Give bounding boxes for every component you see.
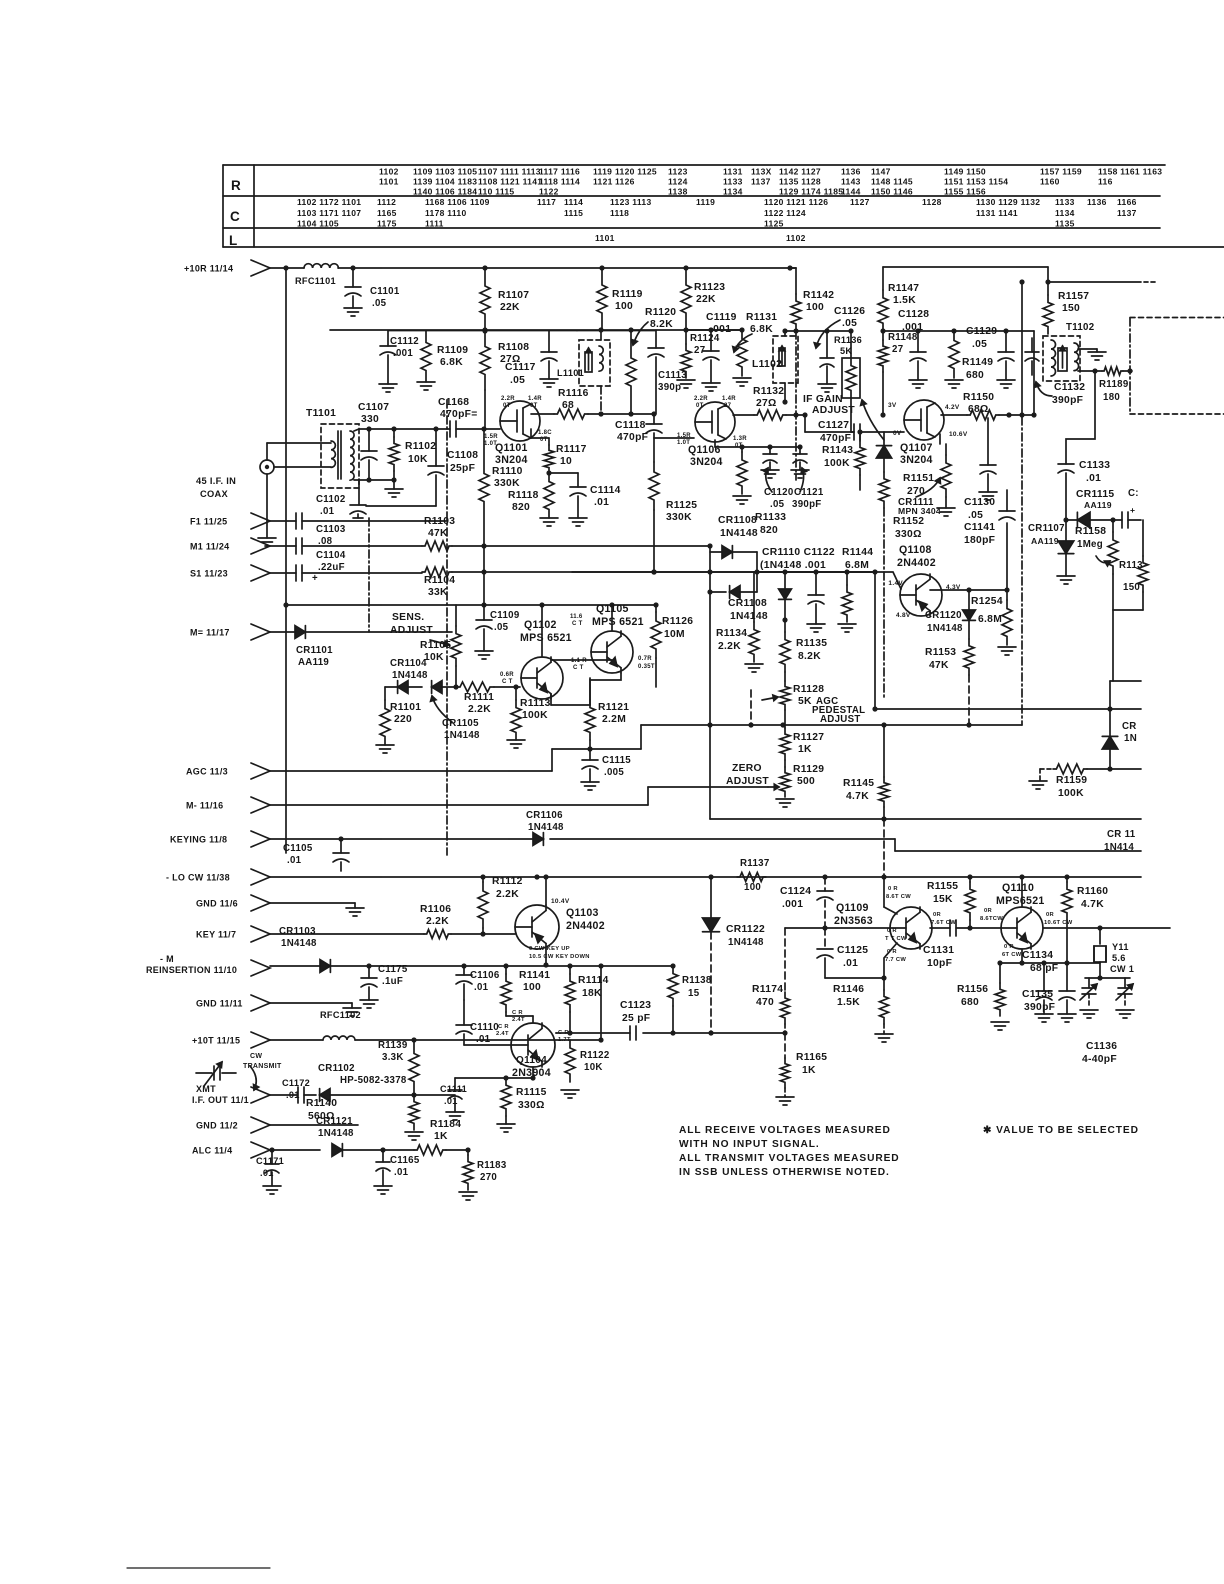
wire Q1107 drain line: [941, 414, 967, 416]
svg-text:1166: 1166: [1117, 197, 1137, 207]
svg-text:100: 100: [523, 982, 541, 993]
diode CR1105 1N4148: [432, 681, 442, 694]
capacitor C1118 470pF: [653, 414, 655, 424]
svg-text:R1109: R1109: [437, 345, 468, 356]
svg-text:100K: 100K: [1058, 788, 1084, 799]
svg-text:KEYING 11/8: KEYING 11/8: [170, 835, 227, 845]
svg-text:27: 27: [694, 345, 705, 356]
svg-text:ALL TRANSMIT VOLTAGES MEASURED: ALL TRANSMIT VOLTAGES MEASURED: [679, 1153, 900, 1164]
svg-text:330Ω: 330Ω: [895, 529, 922, 540]
svg-text:C1134: C1134: [1022, 950, 1053, 961]
resistor R1142 100: [790, 267, 796, 269]
resistor R1114 18K: [565, 974, 575, 1012]
crystal Y1101: [1099, 928, 1101, 944]
svg-text:6T CW: 6T CW: [1002, 952, 1022, 958]
svg-text:470pF=: 470pF=: [440, 409, 478, 420]
svg-text:1N4148: 1N4148: [281, 938, 317, 949]
wire Q1104 emitter: [532, 1067, 534, 1078]
svg-text:R1117: R1117: [556, 444, 587, 455]
svg-text:C T: C T: [502, 679, 513, 685]
svg-text:3N204: 3N204: [495, 454, 528, 466]
svg-text:- LO CW 11/38: - LO CW 11/38: [166, 873, 230, 883]
svg-text:1.3R: 1.3R: [733, 436, 747, 442]
svg-text:T1102: T1102: [1066, 322, 1094, 333]
svg-text:MPN 3404: MPN 3404: [898, 506, 941, 516]
svg-text:1N4148: 1N4148: [927, 623, 963, 634]
svg-text:R1110: R1110: [492, 466, 523, 477]
svg-text:REINSERTION 11/10: REINSERTION 11/10: [146, 965, 237, 975]
svg-text:C1124: C1124: [780, 886, 811, 897]
svg-text:0T: 0T: [503, 403, 511, 409]
svg-text:47K: 47K: [929, 660, 949, 671]
svg-text:R1112: R1112: [492, 876, 523, 887]
svg-text:C1110: C1110: [470, 1022, 499, 1033]
wire L1101 node: [577, 330, 656, 332]
resistor R1254 6.8M: [1006, 590, 1008, 600]
transistor Q1102 MPS6521: [521, 657, 563, 699]
svg-text:1112: 1112: [377, 197, 396, 207]
svg-text:C1172: C1172: [282, 1078, 310, 1088]
svg-text:R1119: R1119: [612, 289, 643, 300]
wire Q1104 collector line: [555, 1032, 557, 1034]
svg-text:1101: 1101: [379, 177, 399, 187]
svg-text:5K: 5K: [840, 346, 852, 356]
wire Q1108 collector line: [930, 589, 1007, 591]
svg-text:1117: 1117: [537, 197, 556, 207]
svg-text:18K: 18K: [582, 988, 602, 999]
wire AGC pedestal bus y=725: [590, 748, 641, 750]
resistor R1109 6.8K: [421, 331, 431, 382]
svg-text:10.6V: 10.6V: [949, 431, 968, 438]
svg-text:100K: 100K: [824, 458, 850, 469]
svg-text:1N4148: 1N4148: [318, 1128, 354, 1139]
capacitor C1115 .005: [589, 749, 591, 760]
capacitor C1104 .22uF series: [270, 545, 296, 547]
svg-text:1138: 1138: [668, 187, 688, 197]
svg-text:HP-5082-3378: HP-5082-3378: [340, 1075, 407, 1086]
svg-text:GND 11/11: GND 11/11: [196, 999, 243, 1009]
svg-text:R1147: R1147: [888, 283, 919, 294]
diode CR1109 1N4148: [710, 591, 726, 593]
resistor R1104 33K on S1 line: [422, 567, 452, 577]
svg-text:R1149: R1149: [962, 357, 993, 368]
svg-text:Q1104: Q1104: [516, 1055, 547, 1066]
svg-text:1N414: 1N414: [1104, 842, 1134, 853]
resistor R1111 2.2K: [456, 682, 494, 692]
capacitor C1107 330: [368, 429, 370, 451]
svg-text:M- 11/16: M- 11/16: [186, 801, 223, 811]
svg-text:R1101: R1101: [390, 702, 421, 713]
svg-text:C1104: C1104: [316, 550, 346, 561]
svg-text:0.35T: 0.35T: [638, 664, 655, 670]
svg-text:TRANSMIT: TRANSMIT: [243, 1063, 282, 1070]
svg-text:180: 180: [1103, 392, 1120, 403]
svg-text:22K: 22K: [500, 302, 520, 313]
svg-text:IN SSB UNLESS OTHERWISE NOTED.: IN SSB UNLESS OTHERWISE NOTED.: [679, 1167, 890, 1178]
capacitor C1103 .08 series: [270, 520, 296, 522]
svg-text:150: 150: [1062, 303, 1080, 314]
svg-text:CW: CW: [250, 1053, 262, 1060]
svg-text:1133: 1133: [723, 177, 743, 187]
svg-text:CR1104: CR1104: [390, 658, 427, 669]
svg-text:1115: 1115: [564, 208, 583, 218]
partition shield line input: [368, 518, 370, 632]
svg-text:Q1109: Q1109: [836, 902, 869, 914]
wire sens bus: [286, 604, 656, 606]
svg-text:1142 1127: 1142 1127: [779, 167, 821, 177]
svg-text:.01: .01: [287, 855, 302, 866]
svg-text:RFC1101: RFC1101: [295, 276, 336, 286]
svg-text:270: 270: [907, 486, 925, 497]
svg-text:C1119: C1119: [706, 312, 737, 323]
svg-text:10.5 CW KEY DOWN: 10.5 CW KEY DOWN: [529, 954, 590, 960]
svg-text:390pF: 390pF: [792, 499, 822, 510]
svg-text:R1111: R1111: [464, 692, 494, 703]
svg-text:1121: 1121: [593, 177, 613, 187]
svg-text:5.6: 5.6: [1112, 953, 1126, 963]
svg-text:1157 1159: 1157 1159: [1040, 167, 1082, 177]
resistor R1149 680: [949, 331, 959, 378]
diode CR1112 vertical: [883, 432, 885, 445]
svg-text:C1114: C1114: [590, 485, 621, 496]
svg-text:100: 100: [744, 882, 761, 893]
svg-text:ADJUST: ADJUST: [820, 714, 861, 725]
svg-text:R1129: R1129: [793, 764, 824, 775]
svg-text:C1121: C1121: [794, 487, 824, 498]
resistor R1108 27ohm: [480, 331, 490, 390]
svg-text:15: 15: [688, 988, 700, 999]
svg-text:.05: .05: [972, 339, 987, 350]
potentiometer R1105 10K: [455, 605, 457, 626]
svg-text:1.4R: 1.4R: [528, 396, 542, 402]
wire XMT line: [270, 1094, 296, 1096]
transistor Q1101 3N204: [500, 401, 540, 441]
svg-text:C1126: C1126: [834, 306, 865, 317]
svg-text:CW 1: CW 1: [1110, 964, 1134, 974]
svg-text:1144: 1144: [841, 187, 861, 197]
svg-text:R1106: R1106: [420, 904, 451, 915]
svg-text:.05: .05: [510, 375, 525, 386]
svg-text:R1143: R1143: [822, 445, 853, 456]
svg-text:1Meg: 1Meg: [1077, 539, 1103, 550]
shield partition right edge: [1129, 318, 1131, 413]
svg-text:CR: CR: [1122, 721, 1137, 732]
svg-text:22K: 22K: [696, 294, 716, 305]
resistor R1126 10M: [655, 605, 657, 612]
svg-text:1102: 1102: [786, 233, 806, 243]
svg-text:R1254: R1254: [971, 596, 1003, 607]
svg-text:4.8V: 4.8V: [896, 612, 911, 619]
svg-text:AGC 11/3: AGC 11/3: [186, 767, 228, 777]
svg-text:R1183: R1183: [477, 1160, 507, 1171]
svg-text:CR1115: CR1115: [1076, 489, 1114, 500]
capacitor C1141 180pF: [1006, 523, 1008, 590]
svg-text:R1107: R1107: [498, 290, 529, 301]
svg-text:1147: 1147: [871, 167, 891, 177]
svg-text:820: 820: [760, 525, 778, 536]
svg-text:Q1102: Q1102: [524, 619, 557, 631]
svg-text:10.6T CW: 10.6T CW: [1044, 920, 1073, 926]
svg-text:1136: 1136: [841, 167, 861, 177]
svg-text:1N4148: 1N4148: [728, 937, 764, 948]
capacitor C1135 390pF: [1066, 963, 1068, 991]
capacitor C1106 .01: [456, 974, 472, 976]
svg-text:2.2K: 2.2K: [718, 641, 741, 652]
wire +10R bus: [270, 267, 304, 269]
table R row reference numbers: [379, 167, 1162, 197]
svg-text:I.F. OUT 11/1: I.F. OUT 11/1: [192, 1095, 249, 1105]
resistor R1110 330K: [479, 429, 489, 546]
svg-text:C1128: C1128: [898, 309, 929, 320]
svg-text:CR1103: CR1103: [279, 926, 316, 937]
transistor Q1110 MPS6521: [1001, 907, 1043, 949]
svg-text:1N4148: 1N4148: [528, 822, 564, 833]
svg-text:1.5K: 1.5K: [893, 295, 916, 306]
diode CR1120 1N4148: [968, 590, 970, 610]
svg-text:L1101: L1101: [557, 368, 584, 378]
svg-text:Q1101: Q1101: [495, 442, 528, 454]
svg-text:68: 68: [562, 400, 574, 411]
svg-text:1140 1106 1184: 1140 1106 1184: [413, 187, 477, 197]
svg-text:330: 330: [361, 414, 379, 425]
svg-text:C1109: C1109: [490, 610, 520, 621]
capacitor C1131 10pF: [949, 920, 951, 936]
svg-text:MPS6521: MPS6521: [996, 895, 1045, 907]
svg-text:1K: 1K: [798, 744, 812, 755]
svg-text:R1139: R1139: [378, 1040, 408, 1051]
wire Q1109 emitter: [884, 943, 897, 978]
svg-text:1178 1110: 1178 1110: [425, 208, 466, 218]
svg-text:R1127: R1127: [793, 732, 824, 743]
svg-text:100: 100: [806, 302, 824, 313]
resistor R1127 1K: [784, 710, 786, 728]
svg-text:R1160: R1160: [1077, 886, 1108, 897]
partition shield line 2: [795, 331, 797, 480]
svg-text:1130 1129 1132: 1130 1129 1132: [976, 197, 1040, 207]
svg-text:CR1120: CR1120: [925, 610, 962, 621]
capacitor C1129 .05: [1005, 331, 1007, 352]
resistor R1118 820: [544, 473, 554, 518]
svg-text:R1114: R1114: [578, 975, 609, 986]
wire left vertical bus: [285, 268, 287, 853]
svg-text:L: L: [229, 233, 238, 248]
svg-text:CR1122: CR1122: [726, 924, 765, 935]
svg-text:C1108: C1108: [447, 450, 478, 461]
svg-text:2.2K: 2.2K: [496, 889, 519, 900]
wire Q1105 collector: [611, 605, 613, 631]
svg-text:1.4R: 1.4R: [722, 396, 736, 402]
wire Q1102 base: [516, 686, 520, 688]
svg-text:F1 11/25: F1 11/25: [190, 517, 227, 527]
wire Q1106 source bypass: [714, 440, 716, 447]
svg-text:1123: 1123: [668, 167, 688, 177]
svg-text:ALL RECEIVE VOLTAGES MEASURED: ALL RECEIVE VOLTAGES MEASURED: [679, 1125, 891, 1136]
svg-text:GND 11/2: GND 11/2: [196, 1121, 238, 1131]
svg-text:C1112: C1112: [390, 336, 419, 347]
svg-text:Q1110: Q1110: [1002, 882, 1034, 894]
svg-text:R1156: R1156: [957, 984, 988, 995]
wire T1101 bottom node: [354, 479, 394, 481]
resistor R1121 2.2M: [590, 673, 621, 700]
svg-text:27: 27: [724, 403, 732, 409]
svg-text:1101: 1101: [595, 233, 615, 243]
svg-text:0T: 0T: [696, 403, 704, 409]
resistor R1160 4.7K: [1066, 877, 1068, 882]
wire Q1109 collector to LO CW: [883, 877, 885, 907]
transistor Q1109 2N3563: [890, 907, 932, 949]
svg-text:2.2K: 2.2K: [468, 704, 491, 715]
svg-text:R1145: R1145: [843, 778, 874, 789]
svg-text:SENS.: SENS.: [392, 612, 424, 623]
svg-text:R: R: [231, 178, 241, 193]
svg-text:1102 1172 1101: 1102 1172 1101: [297, 197, 361, 207]
resistor R1123 22K: [681, 268, 691, 330]
svg-text:AA119: AA119: [1031, 536, 1059, 546]
svg-text:2N4402: 2N4402: [566, 920, 605, 932]
svg-text:390pF: 390pF: [1024, 1002, 1055, 1013]
svg-text:C1102: C1102: [316, 494, 346, 505]
svg-text:R1131: R1131: [746, 312, 777, 323]
svg-text:C1141: C1141: [964, 522, 995, 533]
svg-text:500: 500: [797, 776, 815, 787]
svg-text:R1120: R1120: [645, 307, 676, 318]
svg-text:1.5K: 1.5K: [837, 997, 860, 1008]
svg-text:25 pF: 25 pF: [622, 1013, 650, 1024]
svg-text:KEY 11/7: KEY 11/7: [196, 930, 236, 940]
partition shield line 1: [446, 400, 448, 855]
svg-text:R1189: R1189: [1099, 379, 1129, 390]
svg-text:1.0T: 1.0T: [484, 441, 497, 447]
wire Q1110 emitter node: [1021, 949, 1023, 963]
svg-text:1131 1141: 1131 1141: [976, 208, 1018, 218]
transistor Q1106 3N204: [695, 402, 735, 442]
svg-text:1.1 R: 1.1 R: [571, 658, 587, 664]
svg-text:R1153: R1153: [925, 647, 956, 658]
svg-text:33K: 33K: [428, 587, 448, 598]
capacitor C1108 25pF: [435, 429, 437, 466]
svg-text:0R: 0R: [1046, 912, 1055, 918]
svg-text:C: C: [230, 209, 240, 224]
svg-text:2N3563: 2N3563: [834, 915, 873, 927]
svg-text:CR1121: CR1121: [316, 1116, 353, 1127]
svg-text:R1135: R1135: [796, 638, 827, 649]
inductor L1101 shielded: [579, 340, 610, 386]
svg-text:1123 1113: 1123 1113: [610, 197, 651, 207]
svg-text:25pF: 25pF: [450, 463, 475, 474]
svg-text:8.2K: 8.2K: [650, 319, 673, 330]
svg-text:10K: 10K: [408, 454, 428, 465]
svg-text:1127: 1127: [850, 197, 870, 207]
svg-text:R1155: R1155: [927, 881, 958, 892]
svg-text:0 R: 0 R: [1004, 944, 1014, 950]
ground for pin 11/11: [270, 1002, 352, 1004]
wire S1 node vertical: [709, 546, 711, 819]
svg-text:.001: .001: [393, 348, 413, 359]
wire ALC line: [270, 1149, 320, 1151]
svg-text:ADJUST: ADJUST: [726, 776, 769, 787]
svg-text:R1142: R1142: [803, 290, 834, 301]
svg-text:2.4T: 2.4T: [512, 1017, 525, 1023]
svg-text:R1144: R1144: [842, 547, 873, 558]
svg-text:R1136: R1136: [834, 335, 862, 345]
svg-text:.01: .01: [394, 1167, 409, 1178]
svg-text:680: 680: [966, 370, 984, 381]
svg-text:470pF: 470pF: [617, 432, 648, 443]
svg-text:ADJUST: ADJUST: [390, 625, 433, 636]
svg-text:1125: 1125: [764, 219, 784, 229]
wire Q1109 collector output: [930, 927, 950, 929]
capacitor C1175 .1uF: [368, 966, 370, 978]
svg-text:R1118: R1118: [508, 490, 539, 501]
svg-text:1114: 1114: [564, 197, 583, 207]
svg-text:7.6T CW: 7.6T CW: [931, 920, 956, 926]
resistor R1106 2.2K: [424, 930, 451, 939]
svg-text:C1120: C1120: [764, 487, 794, 498]
svg-text:1126: 1126: [615, 177, 635, 187]
svg-text:CR 11: CR 11: [1107, 829, 1136, 840]
svg-text:R1104: R1104: [424, 575, 455, 586]
svg-text:3V: 3V: [888, 402, 897, 409]
capacitor C1123 25pF: [629, 1026, 631, 1040]
svg-text:1119: 1119: [593, 167, 612, 177]
capacitor C1120 .05: [769, 447, 771, 454]
potentiometer R1129 500 zero adjust: [784, 760, 786, 767]
svg-text:1N4148: 1N4148: [730, 611, 768, 622]
svg-text:.001: .001: [782, 899, 803, 910]
diode CR1110 1N4148 vertical: [784, 572, 786, 589]
resistor R1147 1.5K: [878, 290, 888, 331]
svg-text:68 pF: 68 pF: [1030, 963, 1058, 974]
wire Q1103 emitter collector: [545, 877, 547, 905]
resistor R1102 10K: [393, 429, 395, 437]
bottom left rule: [127, 1567, 270, 1569]
svg-text:2N4402: 2N4402: [897, 557, 936, 569]
trimmer capacitors C1136 4-40pF: [1085, 977, 1130, 979]
wire AGC line: [270, 770, 552, 772]
svg-text:R1141: R1141: [519, 970, 550, 981]
svg-text:R1115: R1115: [516, 1087, 547, 1098]
svg-text:1120 1125: 1120 1125: [615, 167, 657, 177]
capacitor series on S1 line .22uF: [270, 572, 296, 574]
transformer T1101: [321, 424, 359, 488]
svg-text:113X: 113X: [751, 167, 772, 177]
svg-text:1N4148: 1N4148: [720, 528, 758, 539]
potentiometer R1136 5K IF gain adjust: [850, 331, 852, 358]
svg-text:1.0T: 1.0T: [677, 440, 690, 446]
svg-text:8.6T CW: 8.6T CW: [886, 894, 911, 900]
svg-text:1165: 1165: [377, 208, 397, 218]
svg-text:390pF: 390pF: [1052, 395, 1083, 406]
resistor R1132 27ohm: [754, 410, 786, 420]
resistor R1112 2.2K: [482, 877, 484, 882]
resistor R1103 47K on M1 line: [422, 541, 452, 551]
svg-text:- M: - M: [160, 954, 174, 964]
svg-text:C1132: C1132: [1054, 382, 1085, 393]
svg-text:820: 820: [512, 502, 530, 513]
ground under R1102: [393, 480, 395, 489]
wire Q1110 output: [1043, 927, 1100, 929]
capacitor C1113 390p: [655, 330, 657, 348]
svg-text:10pF: 10pF: [927, 958, 952, 969]
svg-text:.05: .05: [968, 510, 983, 521]
resistor R1144 6.8M: [846, 572, 848, 585]
resistor R1116 68: [554, 409, 588, 419]
svg-text:6.8M: 6.8M: [978, 614, 1002, 625]
svg-text:1118: 1118: [610, 208, 629, 218]
resistor R1138 15: [668, 966, 678, 1006]
svg-text:1N: 1N: [1124, 733, 1137, 744]
svg-text:110 1115: 110 1115: [478, 187, 514, 197]
